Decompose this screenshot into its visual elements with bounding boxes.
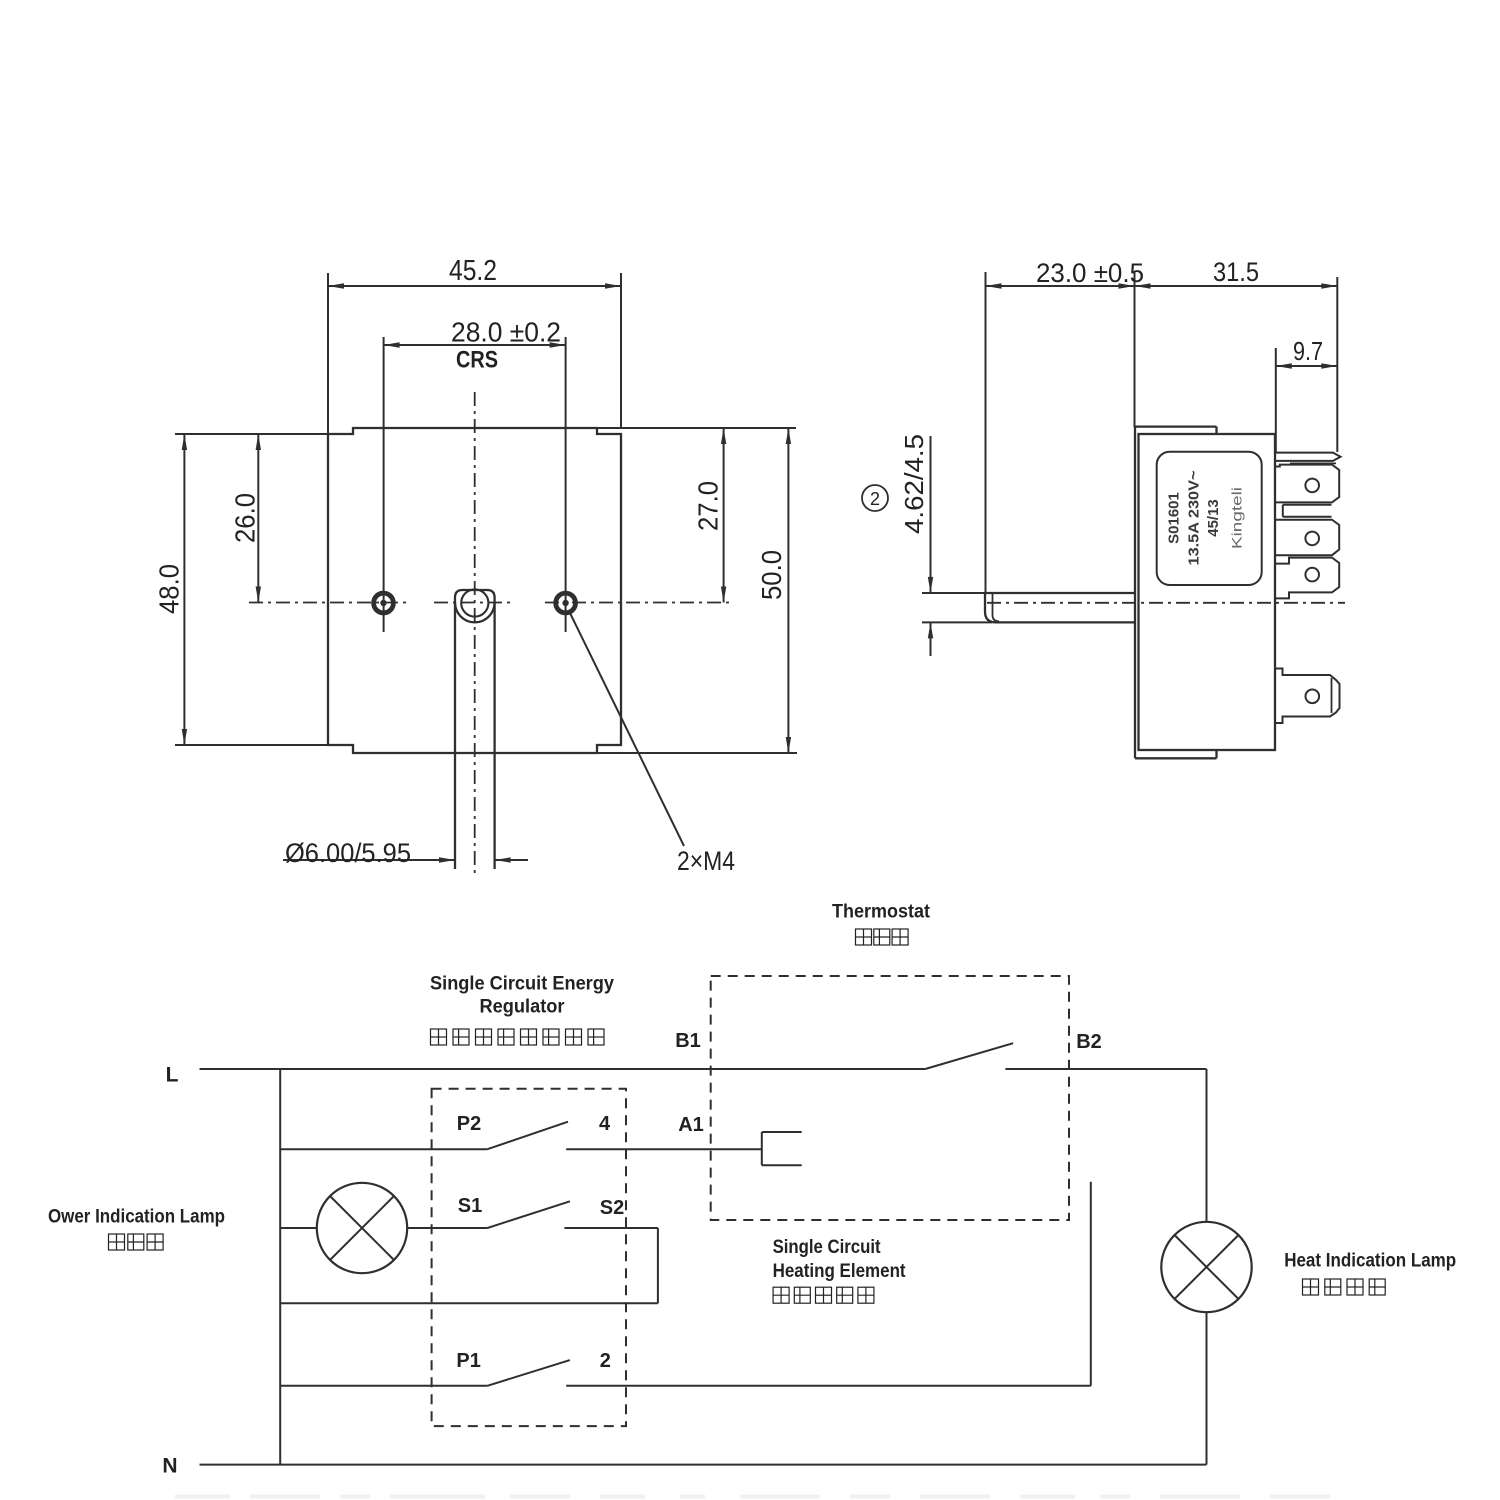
svg-text:S2: S2	[600, 1197, 624, 1219]
wire N line	[200, 1464, 1207, 1466]
label Thermostat	[832, 902, 931, 923]
extension line top (27.0/50.0 datum)	[597, 427, 796, 429]
label power lamp chinese	[109, 1234, 164, 1250]
dimension 4.62/4.5 line lower	[928, 622, 933, 656]
wire L line right	[1005, 1068, 1206, 1070]
svg-text:45.2: 45.2	[449, 255, 497, 287]
svg-text:P2: P2	[457, 1113, 481, 1135]
svg-text:L: L	[166, 1064, 179, 1087]
dimension 26.0 text	[230, 493, 261, 543]
dimension 27.0 line	[721, 428, 726, 603]
centerline shaft vertical	[474, 392, 476, 875]
2xM4 text	[677, 846, 735, 876]
dimension 48.0 text	[154, 564, 185, 614]
wire S2 contact	[564, 1227, 658, 1229]
lamp power indication	[317, 1183, 407, 1273]
label B1	[675, 1030, 701, 1052]
wire lamp1 left	[280, 1227, 317, 1229]
dimension 26.0 line	[256, 434, 261, 603]
svg-text:50.0: 50.0	[756, 550, 787, 600]
label B2	[1076, 1031, 1102, 1053]
dimension 23.0 extension lines	[986, 272, 1135, 592]
dimension 28.0 text	[451, 317, 561, 348]
terminal blade 2	[1276, 520, 1339, 556]
dimension 31.5 line	[1135, 283, 1338, 288]
svg-text:Single Circuit Energy: Single Circuit Energy	[430, 974, 614, 995]
switch P2-4 blade	[487, 1122, 568, 1150]
dimension 9.7 text	[1293, 336, 1323, 366]
dimension 45.2 extension lines	[328, 273, 621, 434]
label P2	[457, 1113, 481, 1135]
dimension 4.62/4.5 extension lines	[922, 593, 992, 622]
svg-text:31.5: 31.5	[1213, 257, 1259, 287]
svg-text:A1: A1	[678, 1114, 704, 1136]
wire element return up	[1090, 1182, 1092, 1386]
wire 4 to A1 to element	[566, 1148, 762, 1150]
svg-text:CRS: CRS	[456, 347, 498, 374]
svg-text:Thermostat: Thermostat	[832, 902, 931, 923]
dimension 31.5 text	[1213, 257, 1259, 287]
wire 2 contact	[566, 1385, 1091, 1387]
svg-text:Heat Indication Lamp: Heat Indication Lamp	[1284, 1251, 1456, 1272]
wire lamp2 to N	[1206, 1312, 1208, 1465]
wire P1 row	[280, 1385, 487, 1387]
wire lamp1 right	[407, 1227, 487, 1229]
svg-text:27.0: 27.0	[693, 481, 724, 531]
terminal blade 3	[1276, 558, 1339, 599]
svg-text:28.0 ±0.2: 28.0 ±0.2	[451, 317, 561, 348]
wire S2 return	[280, 1302, 658, 1304]
svg-text:13.5A 230V~: 13.5A 230V~	[1186, 470, 1203, 565]
label 4	[599, 1113, 611, 1135]
switch P1-2 blade	[487, 1360, 570, 1386]
svg-text:B2: B2	[1076, 1031, 1102, 1053]
shaft boss outline front view	[455, 589, 495, 869]
label Regulator	[480, 997, 566, 1018]
svg-text:4: 4	[599, 1113, 611, 1135]
svg-text:Heating Element: Heating Element	[773, 1261, 907, 1282]
svg-text:48.0: 48.0	[154, 564, 185, 614]
panel body front view outline	[328, 428, 621, 753]
label text 45/13	[1205, 499, 1222, 537]
heating element symbol	[762, 1132, 802, 1165]
CRS text	[456, 347, 498, 374]
label Ower Indication Lamp	[48, 1207, 225, 1228]
extension line bottom (50.0 datum)	[597, 752, 797, 754]
centerline shaft horizontal	[434, 602, 514, 604]
label S1	[458, 1195, 482, 1217]
dimension 50.0 line	[786, 428, 791, 753]
control shaft side view	[985, 593, 1135, 622]
label Heating Element	[773, 1261, 907, 1282]
energy regulator dashed box	[432, 1089, 626, 1426]
svg-text:2: 2	[870, 489, 880, 509]
faint cropped text at bottom edge	[175, 1495, 1330, 1499]
label N	[162, 1455, 177, 1478]
dimension shaft diameter line	[283, 857, 528, 862]
svg-text:2: 2	[600, 1350, 611, 1372]
terminal blade edge-on top	[1276, 453, 1341, 464]
centerline left hole	[249, 602, 408, 604]
balloon callout 2	[862, 485, 888, 511]
wire L line left	[200, 1068, 926, 1070]
label L	[166, 1064, 179, 1087]
dimension 27.0 text	[693, 481, 724, 531]
terminal crimp web	[1283, 505, 1332, 517]
dimension shaft diameter text	[285, 838, 411, 868]
svg-text:S01601: S01601	[1166, 492, 1183, 544]
label text Kingteli	[1229, 487, 1245, 549]
label Heat Indication Lamp	[1284, 1251, 1456, 1272]
wire B2 down to lamp	[1206, 1069, 1208, 1222]
svg-text:S1: S1	[458, 1195, 482, 1217]
svg-text:26.0: 26.0	[230, 493, 261, 543]
label P1	[456, 1350, 480, 1372]
svg-text:2×M4: 2×M4	[677, 846, 735, 876]
label regulator chinese	[431, 1029, 605, 1045]
dimension 50.0 text	[756, 550, 787, 600]
wire S2 down	[657, 1228, 659, 1303]
mounting hole left M4	[374, 593, 394, 613]
label 2	[600, 1350, 611, 1372]
dimension 9.7 line	[1276, 363, 1338, 368]
dimension 9.7 extension line	[1275, 348, 1277, 452]
extension line left top (48.0 datum)	[175, 433, 328, 435]
rating label plate	[1157, 452, 1262, 585]
svg-text:Ø6.00/5.95: Ø6.00/5.95	[285, 838, 411, 868]
svg-text:Regulator: Regulator	[480, 997, 566, 1018]
dimension 4.62/4.5 text	[899, 434, 929, 534]
svg-text:P1: P1	[456, 1350, 480, 1372]
thermostat switch blade B1-B2	[925, 1043, 1013, 1069]
svg-text:45/13: 45/13	[1205, 499, 1222, 537]
svg-text:23.0 ±0.5: 23.0 ±0.5	[1036, 258, 1144, 288]
dimension 28.0 line	[384, 342, 566, 347]
label thermostat chinese	[856, 929, 909, 945]
svg-text:Kingteli: Kingteli	[1229, 487, 1245, 549]
svg-text:9.7: 9.7	[1293, 336, 1323, 366]
dimension 4.62/4.5 line upper	[928, 436, 933, 593]
thermostat dashed box	[711, 976, 1069, 1220]
centerline shaft side view	[987, 602, 1345, 604]
wire P2 row	[280, 1148, 487, 1150]
svg-text:Single Circuit: Single Circuit	[773, 1237, 882, 1258]
label S2	[600, 1197, 624, 1219]
dimension 23.0 line	[986, 283, 1135, 288]
lamp heat indication	[1161, 1222, 1251, 1312]
leader line 2xM4	[569, 611, 684, 846]
label A1	[678, 1114, 704, 1136]
dimension 48.0 line	[182, 434, 187, 745]
svg-text:N: N	[162, 1455, 177, 1478]
dimension 23.0 text	[1036, 258, 1144, 288]
dimension 45.2 text	[449, 255, 497, 287]
terminal blade bottom	[1276, 669, 1340, 724]
svg-text:B1: B1	[675, 1030, 701, 1052]
label heat lamp chinese	[1303, 1279, 1386, 1295]
dimension 28.0 extension/centerlines of holes	[384, 337, 566, 632]
label Single Circuit Energy	[430, 974, 614, 995]
switch housing body side view	[1139, 434, 1276, 750]
label text S01601	[1166, 492, 1183, 544]
svg-text:Ower Indication Lamp: Ower Indication Lamp	[48, 1207, 225, 1228]
extension line left bottom (48.0 datum)	[175, 744, 328, 746]
wire left bus vertical	[279, 1069, 281, 1465]
label Single Circuit	[773, 1237, 882, 1258]
mounting hole right M4	[556, 593, 576, 613]
label heating element chinese	[773, 1287, 874, 1303]
dimension 31.5 extension line	[1336, 277, 1338, 452]
dimension 45.2 line	[328, 283, 621, 288]
svg-text:4.62/4.5: 4.62/4.5	[899, 434, 929, 534]
terminal blade 1	[1276, 465, 1339, 503]
switch S1-S2 blade	[487, 1201, 570, 1228]
switch housing outer flange side view	[1135, 427, 1217, 759]
centerline right hole	[545, 602, 733, 604]
label text 13.5A 230V~	[1186, 470, 1203, 565]
